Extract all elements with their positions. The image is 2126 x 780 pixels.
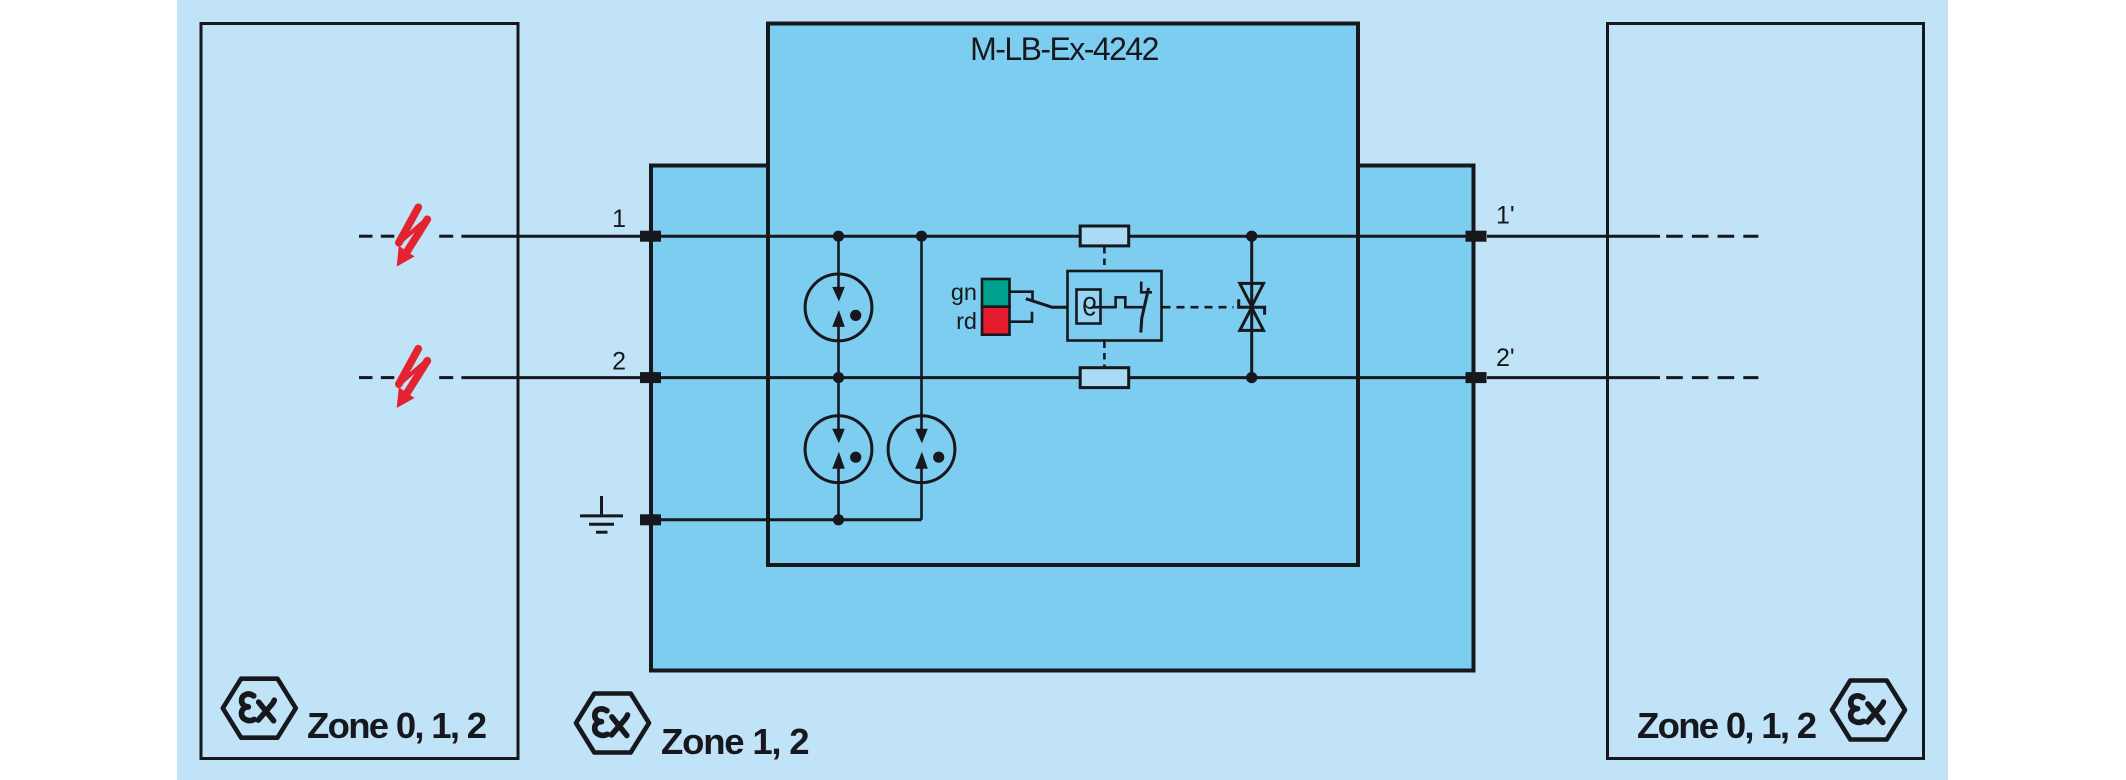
svg-text:2': 2' (1496, 344, 1515, 372)
svg-text:1': 1' (1496, 202, 1515, 230)
svg-text:2: 2 (612, 348, 626, 376)
svg-text:Zone 0, 1, 2: Zone 0, 1, 2 (307, 705, 486, 746)
svg-text:Zone 0, 1, 2: Zone 0, 1, 2 (1637, 705, 1816, 746)
svg-text:rd: rd (956, 308, 977, 334)
svg-text:1: 1 (612, 205, 626, 233)
svg-text:Zone 1, 2: Zone 1, 2 (661, 721, 808, 762)
svg-text:gn: gn (951, 279, 977, 305)
svg-text:M-LB-Ex-4242: M-LB-Ex-4242 (970, 31, 1158, 67)
